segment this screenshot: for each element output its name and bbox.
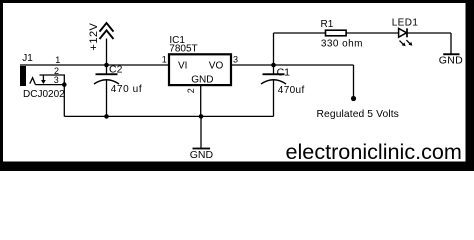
svg-text:1: 1	[162, 54, 167, 64]
frame border top	[0, 0, 474, 3]
svg-text:J1: J1	[22, 53, 33, 64]
svg-text:C1: C1	[277, 66, 291, 78]
svg-text:GND: GND	[191, 74, 213, 85]
svg-text:Regulated 5 Volts: Regulated 5 Volts	[317, 109, 399, 120]
wire net VI: J1 pin1 to IC1 pin1	[20, 64, 169, 66]
LED1 emission arrow a	[400, 41, 404, 45]
wire down to right GND	[450, 33, 452, 54]
capacitor C2 top plate	[96, 73, 118, 75]
svg-text:3: 3	[54, 75, 59, 85]
svg-text:LED1: LED1	[392, 17, 419, 28]
svg-text:3: 3	[233, 54, 238, 64]
svg-text:C2: C2	[109, 64, 123, 76]
svg-text:R1: R1	[321, 19, 334, 30]
wire J1 down to ground bus	[63, 85, 65, 117]
op-amp IC1 7805T regulator box	[169, 54, 231, 85]
frame border left	[0, 0, 3, 171]
wire IC1 pin2 stub	[200, 86, 202, 117]
LED1 emission arrow b	[406, 40, 410, 44]
node regulated 5 volts tap dot	[351, 96, 356, 101]
frame border right	[466, 0, 474, 171]
wire C2 upper stub	[106, 65, 108, 74]
wire to R1 left	[274, 32, 326, 34]
svg-text:+12V: +12V	[88, 22, 100, 50]
wire C1 upper stub	[273, 65, 275, 74]
node junction C2 top	[104, 63, 109, 68]
wire down to regulated 5V tap	[353, 65, 355, 98]
svg-text:470 uf: 470 uf	[111, 84, 142, 95]
wire J1 pin2	[40, 75, 65, 85]
wire +12V stub	[106, 39, 108, 66]
svg-text:GND: GND	[190, 149, 214, 161]
node junction J1 pin3	[62, 82, 67, 87]
svg-text:330 ohm: 330 ohm	[321, 38, 363, 49]
ground symbol bottom center	[193, 148, 211, 150]
resistor R1 body	[326, 30, 347, 36]
capacitor C2 curved plate	[94, 80, 119, 84]
connector J1 switch arrow	[42, 75, 44, 81]
power flag +12V double chevron	[100, 23, 114, 39]
svg-text:470uf: 470uf	[278, 85, 305, 96]
svg-text:7805T: 7805T	[169, 43, 197, 54]
wire riser to R1 level	[273, 33, 275, 65]
wire J1 pin3	[35, 84, 64, 86]
LED1 diode triangle	[399, 28, 407, 37]
svg-text:1: 1	[55, 55, 60, 65]
capacitor C1 curved plate	[261, 80, 286, 84]
wire ground bus	[64, 115, 273, 117]
connector J1 tip contact	[30, 78, 36, 85]
ground symbol right	[443, 53, 459, 55]
connector J1 jack body	[20, 66, 26, 86]
wire C2 lower stub	[106, 80, 108, 116]
node junction IC1 pin2 on bus	[199, 114, 204, 119]
svg-text:DCJ0202: DCJ0202	[23, 89, 65, 100]
frame border bottom	[0, 162, 474, 172]
node junction C1 top	[271, 63, 276, 68]
svg-text:electroniclinic.com: electroniclinic.com	[286, 139, 462, 164]
wire C1 lower leg	[273, 80, 275, 116]
svg-text:VO: VO	[209, 60, 224, 71]
wire net VO: IC1 pin3 to corner	[232, 64, 354, 66]
svg-text:VI: VI	[178, 60, 187, 71]
wire R1 to LED1	[346, 32, 399, 34]
svg-text:GND: GND	[439, 54, 463, 66]
wire bottom GND stub	[200, 116, 202, 147]
wire LED1 to right corner	[407, 32, 451, 34]
LED1 cathode bar	[406, 28, 408, 37]
capacitor C1 top plate	[263, 73, 285, 75]
node junction C2 bottom on bus	[104, 114, 109, 119]
svg-text:2: 2	[186, 88, 196, 93]
